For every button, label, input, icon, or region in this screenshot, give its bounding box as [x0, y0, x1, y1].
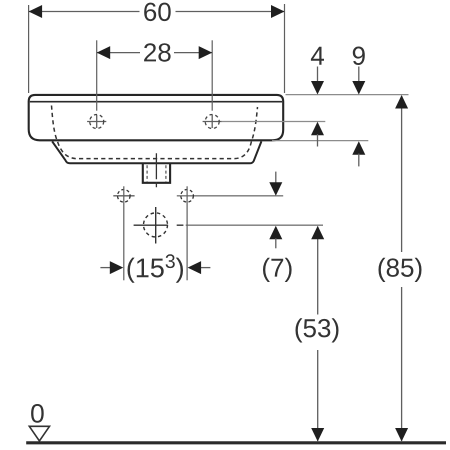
- siphon dashed circle: [144, 213, 168, 237]
- dimension 53 label: [296, 318, 339, 342]
- siphon vertical center line: [155, 207, 157, 244]
- dimension 9 bottom arrow: [352, 141, 365, 155]
- dimension 60 arrow right: [271, 5, 285, 18]
- tap hole left cross: [87, 115, 106, 128]
- dimension 28 label: [144, 43, 171, 62]
- reference line B tap hole level: [222, 121, 325, 123]
- dimension 85 label: [379, 258, 422, 282]
- dimension 7 bottom arrow: [269, 226, 282, 240]
- siphon horizontal center line: [134, 224, 184, 226]
- dimension 85 top arrow: [395, 95, 408, 109]
- dimension 9 label: [353, 47, 365, 66]
- dimension 15 right arrow with tail: [200, 267, 210, 269]
- dimension 4 top arrow: [317, 67, 319, 83]
- dimension 7 label: [263, 258, 292, 282]
- dimension 15 cubed label: [128, 254, 184, 282]
- washbasin rim line: [30, 101, 282, 103]
- dimension 60 line: [29, 11, 284, 13]
- dimension 60 label: [144, 3, 171, 22]
- dimension 53 line: [317, 227, 319, 441]
- tap hole right cross: [203, 115, 222, 128]
- dimension 53 bottom arrow: [311, 428, 324, 442]
- floor line: [26, 441, 446, 444]
- inner bowl dashed outline: [52, 106, 258, 159]
- dimension 28 line: [97, 52, 212, 54]
- dimension 9 top arrow: [358, 67, 360, 83]
- dimension 28 extension line right: [211, 40, 213, 110]
- reference line C basin bottom level: [272, 140, 368, 142]
- dimension 28 arrow right: [199, 46, 213, 59]
- dimension 60 extension line left: [28, 5, 30, 93]
- tap hole right dashed circle: [205, 115, 219, 129]
- dimension 53 top arrow: [311, 226, 324, 240]
- drain center line: [155, 153, 157, 188]
- datum 0 label: [31, 404, 44, 423]
- drain fitting inner dashed walls: [147, 165, 166, 182]
- dimension 28 arrow left: [97, 46, 111, 59]
- dimension 28 extension line left: [96, 40, 98, 110]
- washbasin upper body outline: [29, 95, 284, 140]
- tap hole left dashed circle: [90, 115, 104, 129]
- dimension 15 extension line right: [186, 186, 188, 280]
- reference line A basin top level: [286, 94, 409, 96]
- reference line D siphon level: [186, 224, 323, 226]
- dimension 7 top arrow: [275, 172, 277, 183]
- fixing hole right dashed circle: [181, 190, 194, 203]
- dimension 85 bottom arrow: [395, 428, 408, 442]
- dimension 60 arrow left: [29, 5, 42, 18]
- fixing hole left dashed circle: [118, 190, 131, 203]
- drain fitting rectangle: [143, 163, 170, 183]
- dimension 15 extension line left: [123, 186, 125, 280]
- dimension 85 line: [401, 96, 403, 441]
- datum triangle: [29, 426, 49, 441]
- dimension 4 bottom arrow: [311, 122, 324, 136]
- dimension 4 label: [311, 47, 324, 65]
- fixing hole left cross arm: [113, 195, 134, 197]
- dimension 15 left arrow with tail: [100, 267, 111, 269]
- washbasin lower body: [52, 141, 261, 163]
- dimension 60 extension line right: [284, 4, 286, 93]
- fixing hole right cross arm and reference line E: [177, 195, 283, 197]
